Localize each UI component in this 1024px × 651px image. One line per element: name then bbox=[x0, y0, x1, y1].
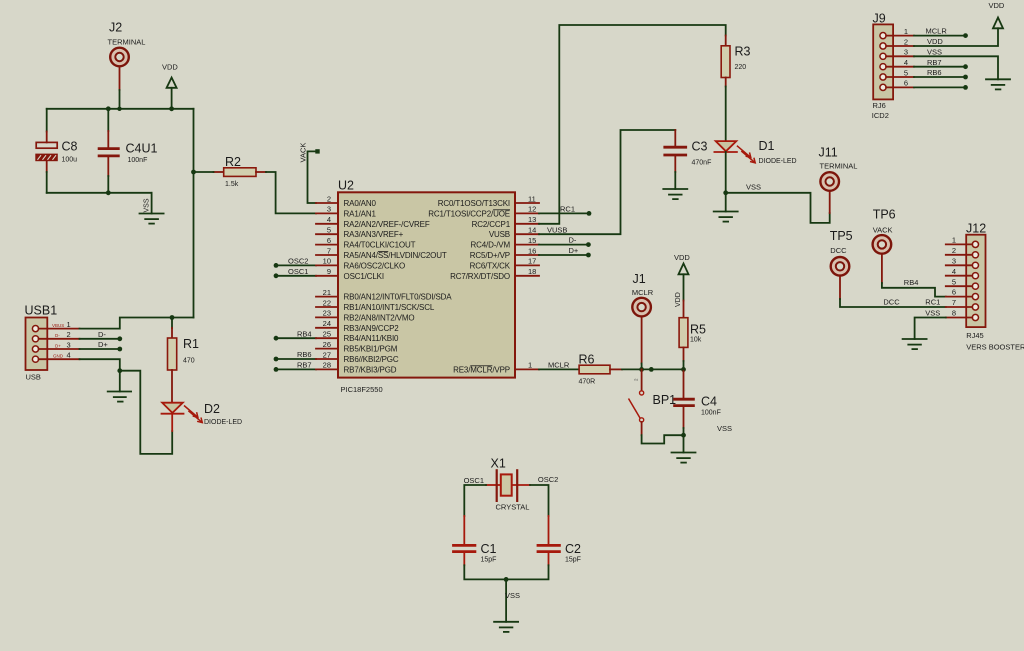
wire OSC1 loop bbox=[464, 476, 486, 516]
pin 13 bbox=[472, 215, 539, 229]
svg-text:100nF: 100nF bbox=[701, 410, 721, 417]
svg-text:RC1: RC1 bbox=[925, 298, 940, 307]
pin 22 bbox=[316, 298, 435, 312]
pin 1 bbox=[453, 361, 539, 375]
svg-text:22: 22 bbox=[323, 298, 331, 307]
svg-text:VSS: VSS bbox=[144, 198, 151, 212]
svg-text:OSC1: OSC1 bbox=[464, 476, 484, 485]
svg-text:VDD: VDD bbox=[162, 63, 178, 72]
svg-text:PIC18F2550: PIC18F2550 bbox=[341, 385, 383, 394]
wire vertical to R2 and USB junction bbox=[193, 109, 195, 318]
svg-text:5: 5 bbox=[904, 68, 908, 77]
svg-text:2: 2 bbox=[67, 330, 71, 339]
pin 17 bbox=[470, 257, 539, 271]
svg-text:RC1/T1OSI/CCP2/UOE: RC1/T1OSI/CCP2/UOE bbox=[428, 209, 510, 218]
pin 14 bbox=[489, 226, 539, 240]
pin 27 bbox=[316, 350, 399, 364]
wire D2 cathode net bbox=[120, 371, 172, 454]
wire C4U1 bottom bbox=[107, 176, 109, 193]
svg-text:TERMINAL: TERMINAL bbox=[108, 38, 146, 47]
resistor R2 bbox=[214, 168, 267, 177]
power VDD arrow J9 bbox=[989, 1, 1005, 28]
pin 2 bbox=[316, 194, 376, 208]
svg-text:RB7/KBI3/PGD: RB7/KBI3/PGD bbox=[344, 365, 397, 374]
wire USB pin4 GND bbox=[80, 359, 120, 391]
svg-text:RB6: RB6 bbox=[297, 350, 312, 359]
wire R6 to junction bbox=[622, 368, 684, 370]
svg-text:3: 3 bbox=[904, 48, 908, 57]
pin 26 bbox=[316, 340, 398, 354]
node rail-J2 bbox=[117, 107, 121, 111]
svg-text:220: 220 bbox=[735, 64, 747, 71]
pin 16 bbox=[470, 246, 539, 260]
svg-text:C4: C4 bbox=[701, 395, 717, 409]
wire D- from pin 15 bbox=[539, 236, 591, 247]
svg-text:J9: J9 bbox=[873, 12, 886, 26]
svg-text:VSS: VSS bbox=[505, 591, 520, 600]
capacitor C4U1 bbox=[98, 131, 120, 176]
wire RB6 stub bbox=[274, 350, 316, 361]
wire RC1 from pin 12 bbox=[539, 205, 591, 216]
svg-text:VACK: VACK bbox=[299, 143, 308, 163]
svg-text:17: 17 bbox=[528, 257, 536, 266]
svg-text:VDD: VDD bbox=[674, 253, 690, 262]
svg-text:C3: C3 bbox=[692, 140, 708, 154]
ground VSS near C8 bbox=[140, 193, 164, 224]
svg-text:VSS: VSS bbox=[717, 424, 732, 433]
wire VSS to J11 bbox=[726, 183, 830, 223]
wire RB4 stub bbox=[274, 329, 316, 340]
pin 15 bbox=[470, 236, 539, 250]
svg-text:5: 5 bbox=[327, 226, 331, 235]
wire J9 pin6 bbox=[914, 85, 968, 90]
pin 5 bbox=[316, 226, 404, 240]
wire BP1 bottom jog bbox=[642, 435, 684, 443]
svg-text:VSS: VSS bbox=[927, 47, 942, 56]
svg-text:RJ6: RJ6 bbox=[873, 101, 886, 110]
svg-text:3: 3 bbox=[327, 205, 331, 214]
wire TP5 to J12 pin7 bbox=[840, 298, 946, 308]
svg-text:1: 1 bbox=[952, 236, 956, 245]
svg-text:5: 5 bbox=[952, 277, 956, 286]
svg-text:RA3/AN3/VREF+: RA3/AN3/VREF+ bbox=[344, 230, 404, 239]
svg-text:D+: D+ bbox=[55, 343, 61, 348]
svg-text:3: 3 bbox=[67, 340, 71, 349]
wire C8 bottom bbox=[46, 172, 48, 193]
svg-text:24: 24 bbox=[323, 319, 331, 328]
wire J1 to junction bbox=[641, 364, 643, 370]
node MCLR J1 bbox=[639, 367, 644, 372]
svg-text:R5: R5 bbox=[690, 323, 706, 337]
svg-text:27: 27 bbox=[323, 350, 331, 359]
svg-text:9: 9 bbox=[327, 267, 331, 276]
svg-text:RB2/AN8/INT2/VMO: RB2/AN8/INT2/VMO bbox=[344, 313, 415, 322]
ground C4 bbox=[672, 453, 696, 463]
wire D+ from pin 16 bbox=[539, 246, 591, 257]
pin 18 bbox=[450, 267, 539, 281]
svg-text:1: 1 bbox=[904, 27, 908, 36]
svg-text:16: 16 bbox=[528, 246, 536, 255]
node MCLR R5-C4 bbox=[681, 367, 686, 372]
svg-text:28: 28 bbox=[323, 361, 331, 370]
pin 7 bbox=[316, 246, 447, 260]
svg-text:VUSB: VUSB bbox=[547, 225, 567, 234]
svg-text:USB: USB bbox=[26, 373, 41, 382]
svg-text:2: 2 bbox=[327, 194, 331, 203]
svg-text:MCLR: MCLR bbox=[548, 361, 570, 370]
node C4 gnd bbox=[681, 433, 686, 438]
svg-text:RB1/AN10/INT1/SCK/SCL: RB1/AN10/INT1/SCK/SCL bbox=[344, 303, 435, 312]
svg-text:11: 11 bbox=[528, 194, 536, 203]
capacitor C4 bbox=[673, 369, 695, 428]
pin 6 bbox=[316, 236, 416, 250]
svg-text:VDD: VDD bbox=[675, 292, 682, 307]
switch BP1 bbox=[629, 369, 644, 435]
node rail-C4U1 bottom bbox=[106, 190, 111, 195]
ground J12 bbox=[903, 339, 927, 349]
ground C3 bbox=[663, 189, 687, 199]
wire USB pin3 D+ bbox=[80, 340, 123, 351]
svg-text:USB1: USB1 bbox=[25, 304, 58, 318]
svg-text:R1: R1 bbox=[183, 337, 199, 351]
wire J2 to VDD rail bbox=[119, 90, 121, 109]
svg-text:25: 25 bbox=[323, 330, 331, 339]
svg-text:VACK: VACK bbox=[873, 226, 893, 235]
svg-text:RB7: RB7 bbox=[297, 361, 312, 370]
resistor R5 bbox=[679, 301, 688, 362]
diode-led D2 bbox=[162, 403, 203, 431]
svg-text:D-: D- bbox=[569, 236, 577, 245]
wire C3 bottom bbox=[674, 172, 676, 189]
svg-text:OSC1: OSC1 bbox=[288, 267, 308, 276]
pin 4 bbox=[316, 215, 430, 229]
svg-text:MCLR: MCLR bbox=[632, 288, 654, 297]
svg-text:BP1: BP1 bbox=[653, 393, 677, 407]
svg-text:VBUS: VBUS bbox=[52, 323, 64, 328]
svg-text:470nF: 470nF bbox=[692, 160, 712, 167]
wire GND rail bottom-left bbox=[47, 192, 152, 194]
svg-text:RA6/OSC2/CLKO: RA6/OSC2/CLKO bbox=[344, 261, 406, 270]
wire VUSB pin 14 to C3 bbox=[539, 130, 675, 234]
svg-text:15pF: 15pF bbox=[481, 557, 497, 564]
wire OSC2 loop bbox=[530, 475, 558, 516]
svg-text:VUSB: VUSB bbox=[489, 230, 510, 239]
ground J9 bbox=[986, 79, 1010, 89]
svg-text:DCC: DCC bbox=[830, 246, 847, 255]
wire J12 pin8 VSS to gnd bbox=[915, 309, 946, 339]
svg-text:13: 13 bbox=[528, 215, 536, 224]
svg-text:TP5: TP5 bbox=[830, 229, 853, 243]
svg-text:TP6: TP6 bbox=[873, 208, 896, 222]
pin 10 bbox=[316, 257, 405, 271]
wire R2 left bbox=[194, 171, 214, 173]
svg-text:RB0/AN12/INT0/FLT0/SDI/SDA: RB0/AN12/INT0/FLT0/SDI/SDA bbox=[344, 293, 453, 302]
svg-text:D-: D- bbox=[55, 333, 60, 338]
svg-text:4: 4 bbox=[904, 58, 908, 67]
svg-text:VSS: VSS bbox=[925, 309, 940, 318]
pin 21 bbox=[316, 288, 452, 302]
node rail-VDD bbox=[169, 106, 174, 111]
svg-text:R6: R6 bbox=[579, 353, 595, 367]
svg-text:470R: 470R bbox=[579, 379, 596, 386]
svg-text:RC0/T1OSO/T13CKI: RC0/T1OSO/T13CKI bbox=[438, 199, 510, 208]
pin 11 bbox=[438, 194, 539, 208]
wire MCLR from pin 1 bbox=[539, 361, 579, 370]
wire R2 to pin3 bbox=[266, 172, 316, 213]
svg-text:100u: 100u bbox=[62, 157, 78, 164]
svg-text:RC4/D-/VM: RC4/D-/VM bbox=[470, 241, 510, 250]
svg-text:15pF: 15pF bbox=[565, 557, 581, 564]
wire USB pin2 D- bbox=[80, 330, 123, 341]
svg-text:D+: D+ bbox=[98, 340, 108, 349]
wire C8 top lead bbox=[46, 109, 48, 132]
svg-text:23: 23 bbox=[323, 309, 331, 318]
wire J9 pin2 VDD bbox=[914, 28, 998, 46]
svg-text:12: 12 bbox=[528, 205, 536, 214]
svg-text:J2: J2 bbox=[109, 21, 122, 35]
node VSS crystal bbox=[504, 577, 509, 582]
svg-text:26: 26 bbox=[323, 340, 331, 349]
svg-text:RC2/CCP1: RC2/CCP1 bbox=[472, 220, 511, 229]
svg-text:TERMINAL: TERMINAL bbox=[820, 162, 858, 171]
svg-text:RA4/T0CLKI/C1OUT: RA4/T0CLKI/C1OUT bbox=[344, 241, 416, 250]
wire RB7 stub bbox=[274, 361, 316, 372]
pin 25 bbox=[316, 330, 399, 344]
svg-text:2: 2 bbox=[952, 246, 956, 255]
wire R5 to junction bbox=[683, 361, 685, 369]
svg-text:R2: R2 bbox=[225, 155, 241, 169]
svg-text:OSC2: OSC2 bbox=[538, 475, 558, 484]
svg-text:RA0/AN0: RA0/AN0 bbox=[344, 199, 377, 208]
wire pin 13 to R3 top rail bbox=[539, 25, 726, 224]
node MCLR mid bbox=[649, 367, 654, 372]
svg-text:DIODE-LED: DIODE-LED bbox=[759, 158, 797, 165]
svg-text:21: 21 bbox=[323, 288, 331, 297]
capacitor C2 bbox=[537, 516, 561, 565]
svg-text:RB4/AN11/KBI0: RB4/AN11/KBI0 bbox=[344, 334, 400, 343]
node VACK bbox=[299, 143, 320, 203]
wire C4U1 top lead bbox=[107, 109, 109, 131]
svg-text:CRYSTAL: CRYSTAL bbox=[496, 503, 530, 512]
svg-text:RB4: RB4 bbox=[297, 329, 312, 338]
svg-text:X1: X1 bbox=[491, 457, 506, 471]
svg-text:4: 4 bbox=[327, 215, 331, 224]
svg-text:C2: C2 bbox=[565, 542, 581, 556]
resistor R6 bbox=[579, 365, 622, 374]
power VDD arrow R5 bbox=[674, 253, 690, 307]
svg-text:RB5/KBI1/PGM: RB5/KBI1/PGM bbox=[344, 345, 398, 354]
svg-text:14: 14 bbox=[528, 226, 536, 235]
svg-text:VDD: VDD bbox=[989, 1, 1005, 10]
svg-text:4: 4 bbox=[952, 267, 956, 276]
wire OSC1 stub bbox=[274, 267, 316, 278]
wire D1 cathode to gnd bbox=[725, 152, 727, 212]
svg-text:C4U1: C4U1 bbox=[126, 142, 158, 156]
svg-text:15: 15 bbox=[528, 236, 536, 245]
svg-text:DIODE-LED: DIODE-LED bbox=[204, 419, 242, 426]
ground D1 bbox=[714, 212, 738, 222]
node USB gnd bbox=[117, 368, 122, 373]
svg-text:R3: R3 bbox=[735, 45, 751, 59]
wire R1 top lead bbox=[171, 318, 173, 329]
wire TP6 to J12 pin6 RB4 bbox=[882, 278, 946, 297]
resistor R3 bbox=[721, 36, 730, 87]
svg-text:ICD2: ICD2 bbox=[872, 111, 889, 120]
pin 24 bbox=[316, 319, 399, 333]
svg-text:RB4: RB4 bbox=[904, 278, 919, 287]
svg-text:J12: J12 bbox=[966, 222, 986, 236]
svg-text:RA2/AN2/VREF-/CVREF: RA2/AN2/VREF-/CVREF bbox=[344, 220, 430, 229]
svg-text:1: 1 bbox=[67, 320, 71, 329]
wire J9 pin1 MCLR bbox=[914, 27, 968, 38]
power VDD arrow top-left bbox=[162, 63, 178, 109]
svg-text:OSC1/CLKI: OSC1/CLKI bbox=[344, 272, 384, 281]
svg-text:RB6//KBI2/PGC: RB6//KBI2/PGC bbox=[344, 355, 399, 364]
pin 9 bbox=[316, 267, 384, 281]
svg-text:RC5/D+/VP: RC5/D+/VP bbox=[470, 251, 510, 260]
svg-text:RC6/TX/CK: RC6/TX/CK bbox=[470, 261, 511, 270]
svg-text:3: 3 bbox=[952, 256, 956, 265]
svg-text:RB6: RB6 bbox=[927, 68, 942, 77]
svg-text:D-: D- bbox=[98, 330, 106, 339]
ground USB bbox=[108, 392, 131, 402]
svg-text:OSC2: OSC2 bbox=[288, 257, 308, 266]
capacitor C1 bbox=[452, 516, 476, 565]
svg-text:VDD: VDD bbox=[927, 37, 943, 46]
svg-text:RE3/MCLR/VPP: RE3/MCLR/VPP bbox=[453, 365, 510, 374]
svg-text:RA5/AN4/SS/HLVDIN/C2OUT: RA5/AN4/SS/HLVDIN/C2OUT bbox=[344, 251, 447, 260]
resistor R1 bbox=[168, 328, 177, 403]
svg-text:D+: D+ bbox=[569, 246, 579, 255]
svg-text:10: 10 bbox=[323, 257, 331, 266]
svg-text:1.5k: 1.5k bbox=[225, 181, 239, 188]
wire R3 to D1 bbox=[725, 87, 727, 142]
svg-text:RC1: RC1 bbox=[560, 205, 575, 214]
svg-text:100nF: 100nF bbox=[128, 157, 148, 164]
svg-text:1: 1 bbox=[528, 361, 532, 370]
capacitor C8 bbox=[35, 132, 58, 173]
pin 12 bbox=[428, 205, 539, 219]
svg-text:C8: C8 bbox=[62, 140, 78, 154]
svg-text:2: 2 bbox=[904, 37, 908, 46]
node R1 top bbox=[170, 315, 175, 320]
node rail-C4U1 bbox=[106, 106, 111, 111]
svg-text:RB7: RB7 bbox=[927, 58, 942, 67]
svg-text:RA1/AN1: RA1/AN1 bbox=[344, 209, 377, 218]
ground crystal bbox=[494, 622, 518, 632]
svg-text:470: 470 bbox=[183, 358, 195, 365]
svg-text:10k: 10k bbox=[690, 337, 702, 344]
svg-text:D2: D2 bbox=[204, 402, 220, 416]
svg-text:18: 18 bbox=[528, 267, 536, 276]
svg-text:6: 6 bbox=[952, 288, 956, 297]
svg-text:RB3/AN9/CCP2: RB3/AN9/CCP2 bbox=[344, 324, 400, 333]
svg-text:VERS BOOSTER: VERS BOOSTER bbox=[966, 343, 1024, 352]
svg-text:MCLR: MCLR bbox=[926, 27, 948, 36]
svg-text:J11: J11 bbox=[819, 146, 838, 160]
svg-text:D1: D1 bbox=[759, 139, 775, 153]
svg-text:RC7/RX/DT/SDO: RC7/RX/DT/SDO bbox=[450, 272, 510, 281]
wire C4 to gnd bbox=[683, 428, 685, 453]
pin 23 bbox=[316, 309, 414, 323]
svg-text:8: 8 bbox=[952, 309, 956, 318]
diode-led D1 bbox=[714, 141, 755, 163]
wire J9 pin5 RB6 bbox=[914, 68, 968, 79]
svg-text:6: 6 bbox=[327, 236, 331, 245]
svg-text:U2: U2 bbox=[338, 179, 354, 193]
wire USB pin1 VBUS bbox=[80, 318, 194, 329]
svg-text:VSS: VSS bbox=[746, 183, 761, 192]
pin 28 bbox=[316, 361, 397, 375]
wire VDD rail top-left bbox=[47, 108, 194, 110]
wire J9 pin4 RB7 bbox=[914, 58, 968, 69]
svg-text:C1: C1 bbox=[481, 542, 497, 556]
svg-text:7: 7 bbox=[327, 246, 331, 255]
svg-text:7: 7 bbox=[952, 298, 956, 307]
svg-text:GND: GND bbox=[53, 354, 64, 359]
svg-text:J1: J1 bbox=[633, 272, 646, 286]
pin 3 bbox=[316, 205, 376, 219]
wire J9 pin3 VSS bbox=[914, 47, 998, 79]
node VSS junction bbox=[723, 190, 728, 195]
wire OSC2 stub bbox=[274, 257, 316, 268]
node R2 junction bbox=[191, 170, 196, 175]
svg-text:DCC: DCC bbox=[883, 298, 900, 307]
terminal J2 bbox=[110, 48, 129, 90]
wire C1 C2 bottom rail bbox=[464, 565, 548, 579]
svg-text:RJ45: RJ45 bbox=[966, 331, 984, 340]
svg-text:6: 6 bbox=[904, 79, 908, 88]
capacitor C3 bbox=[663, 130, 687, 172]
wire to gnd crystal bbox=[505, 579, 520, 621]
svg-text:4: 4 bbox=[67, 351, 71, 360]
